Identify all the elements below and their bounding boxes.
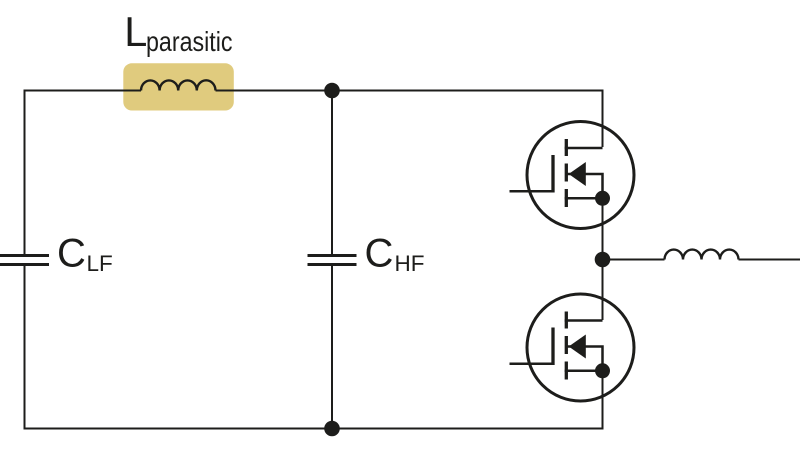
- Q1 source connection: [565, 197, 603, 200]
- svg-text:parasitic: parasitic: [146, 26, 233, 57]
- Q1 body circle: [527, 122, 634, 229]
- Q2 drain connection: [565, 319, 603, 322]
- wire: top-left corner (top rail left segment + left rail upper): [25, 91, 142, 255]
- Q1 body diode arrow: [569, 162, 586, 186]
- Q1 body connection: [567, 174, 603, 198]
- node: switch node (output): [595, 252, 611, 268]
- wire: middle rail lower (C_HF bottom lead): [331, 266, 333, 429]
- Q1 channel dash bottom: [565, 189, 568, 207]
- Q2 body connection: [567, 347, 603, 371]
- svg-text:L: L: [124, 8, 147, 55]
- Q1 channel dash top: [565, 139, 568, 156]
- svg-text:HF: HF: [395, 251, 425, 276]
- inductor Lparasitic: [141, 80, 216, 90]
- svg-text:LF: LF: [87, 251, 113, 276]
- Q2 source connection: [565, 370, 603, 373]
- Q1 gate bar: [551, 155, 554, 193]
- wire: left rail lower + bottom rail left segment: [25, 266, 333, 429]
- node: bottom rail / C_HF junction: [324, 421, 340, 437]
- Q2 body diode arrow: [569, 335, 586, 359]
- capacitor C_LF plates: [0, 254, 49, 257]
- wire: Q1 source to switch node to Q2 drain: [602, 198, 604, 320]
- MOSFET Q2 (low side): [510, 294, 635, 401]
- Q2 gate lead: [510, 363, 555, 366]
- capacitor C_HF plates: [308, 254, 357, 257]
- wire: output inductor to right edge: [739, 259, 800, 261]
- Q2 gate bar: [551, 328, 554, 366]
- MOSFET Q1 (high side): [510, 122, 635, 229]
- wire: switch node to output inductor: [603, 259, 665, 261]
- inductor L_out: [665, 250, 739, 260]
- Q1 gate lead: [510, 190, 555, 193]
- Q1 source dot: [595, 191, 610, 206]
- Q2 channel dash bottom: [565, 362, 568, 380]
- wire: bottom rail right segment + right rail up to Q2 source: [332, 371, 603, 429]
- Q1 channel dash middle: [565, 164, 568, 182]
- Q2 body circle: [527, 294, 634, 401]
- Q1 drain connection: [565, 147, 603, 150]
- wire: top rail right segment + right rail down to Q1 drain: [216, 91, 603, 148]
- svg-text:C: C: [57, 232, 86, 276]
- Q2 channel dash middle: [565, 336, 568, 354]
- highlight box around parasitic inductor: [123, 63, 234, 110]
- Q2 source dot: [595, 363, 610, 378]
- wire: middle rail upper (C_HF top lead): [331, 91, 333, 255]
- svg-text:C: C: [365, 232, 394, 276]
- node: top rail / C_HF junction: [324, 83, 340, 99]
- Q2 channel dash top: [565, 312, 568, 329]
